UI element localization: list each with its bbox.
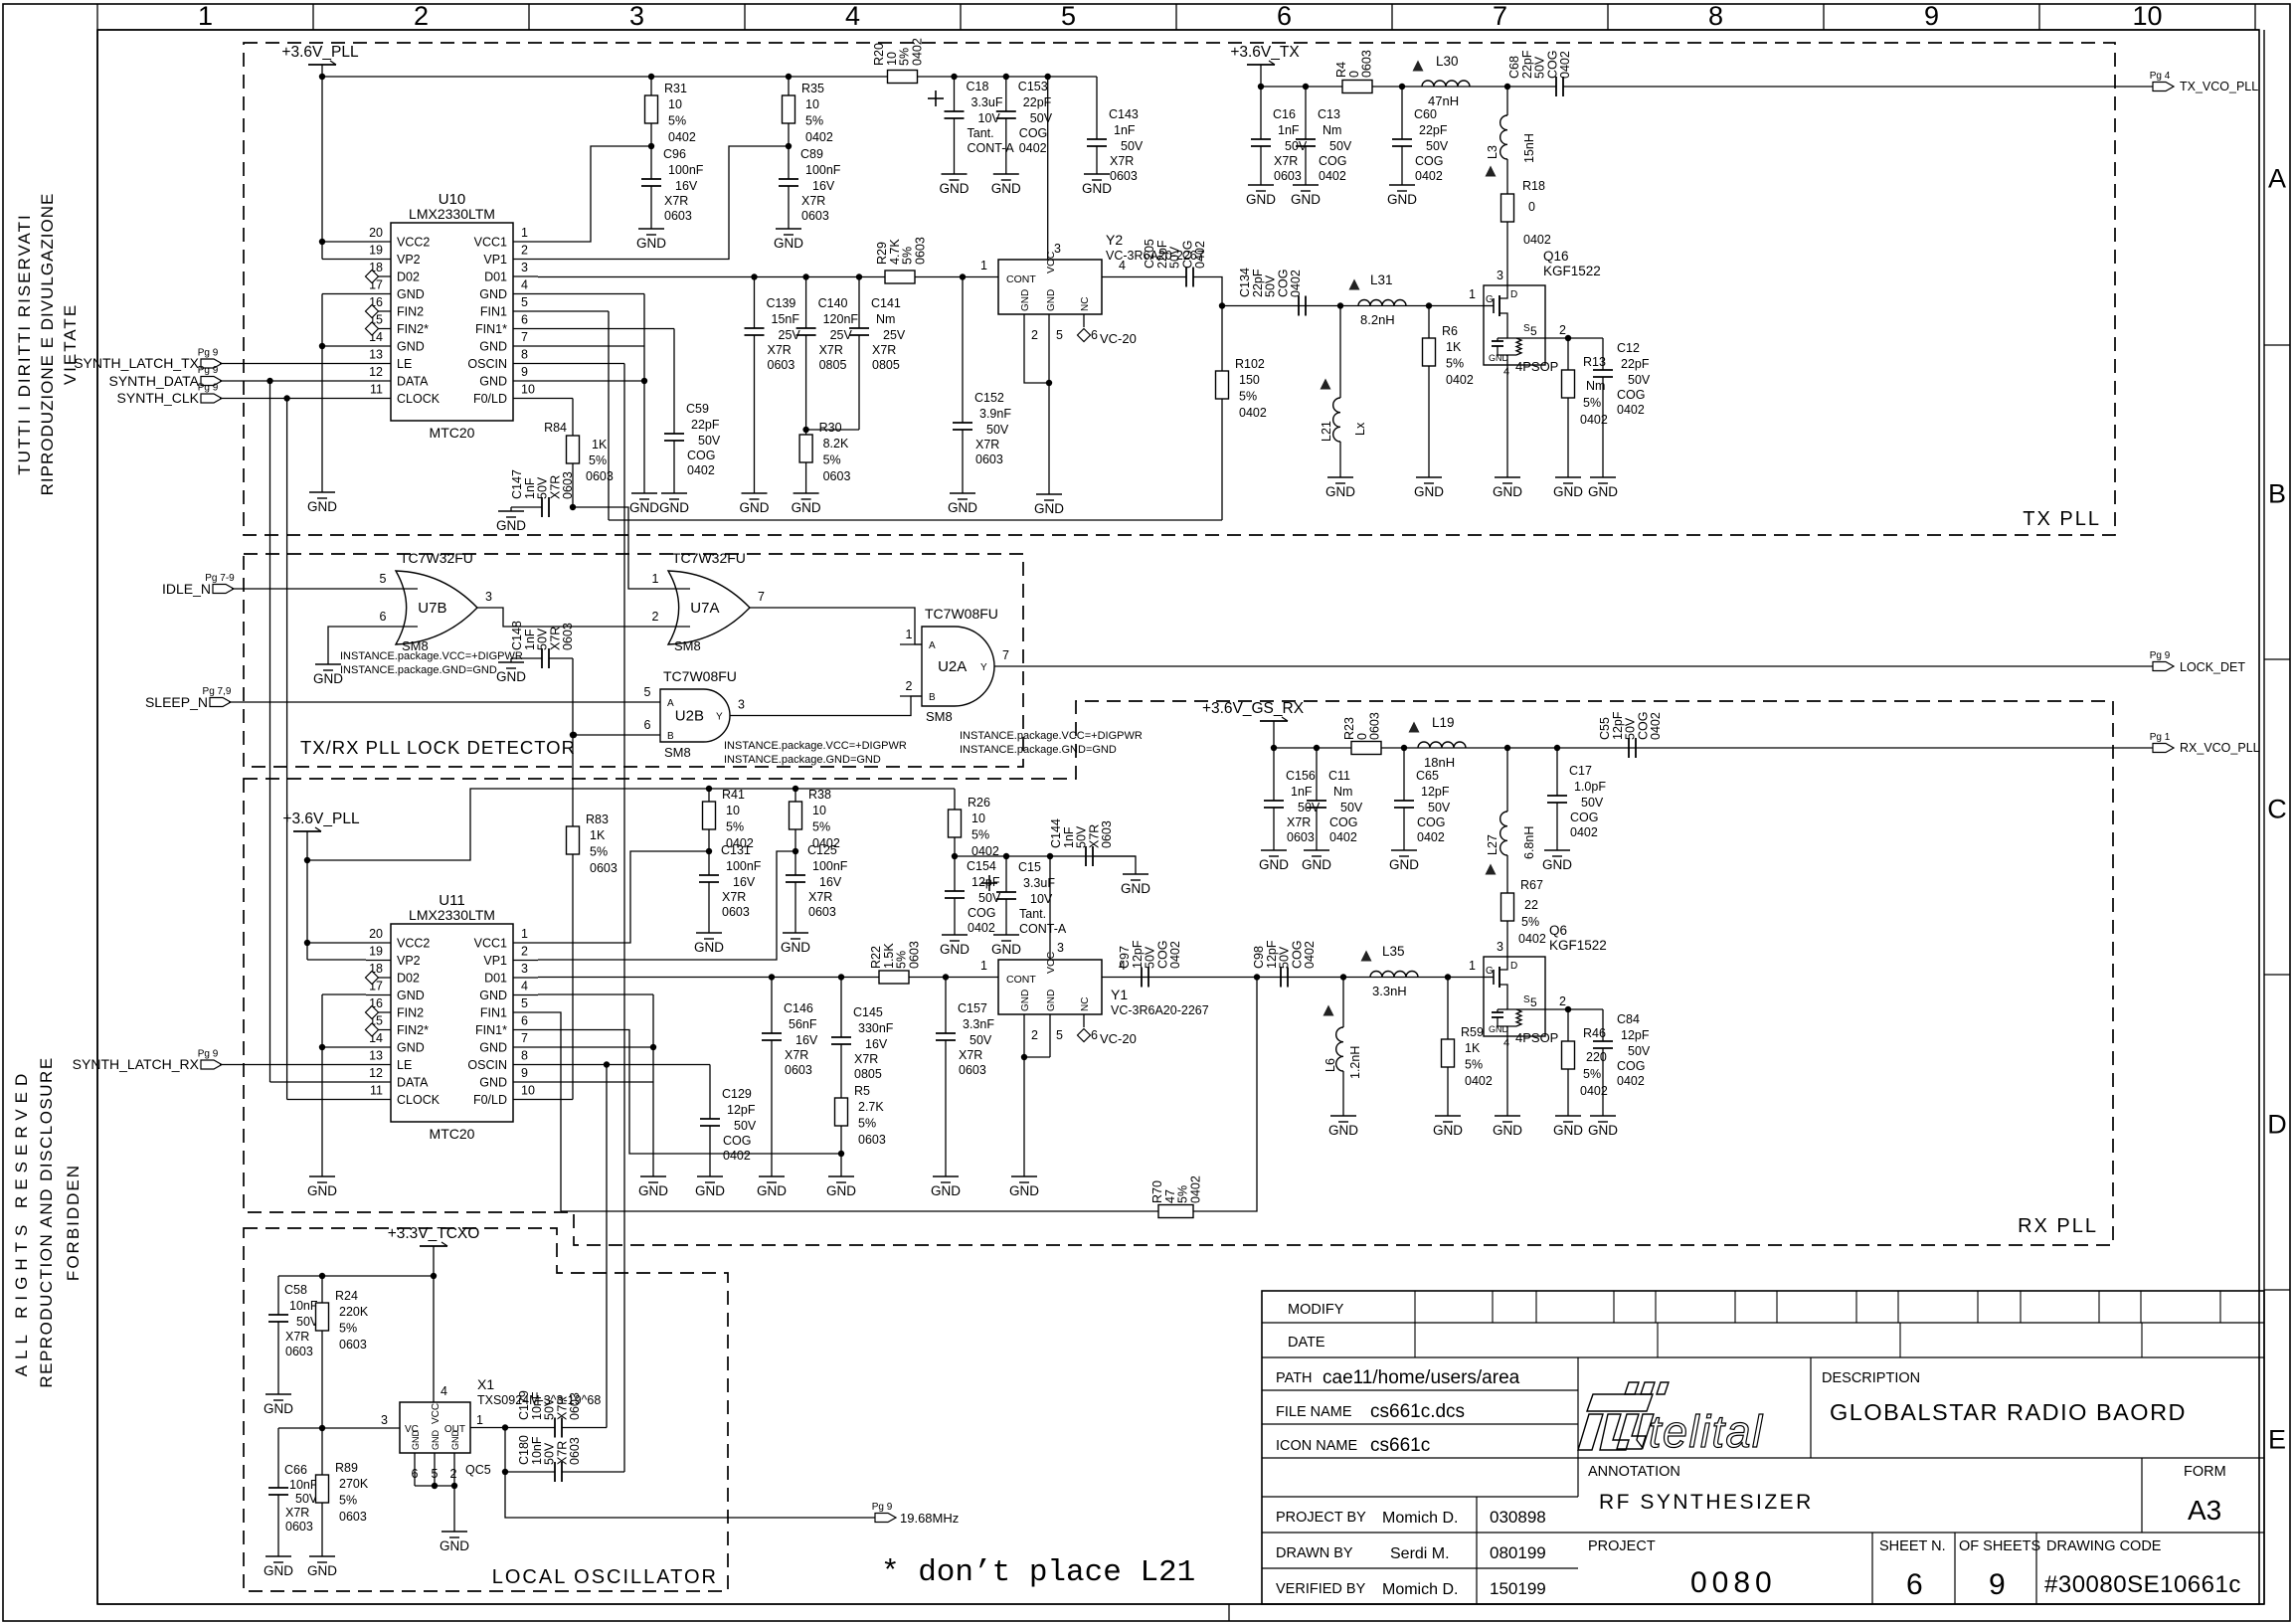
node OSCIN riser (604, 1061, 610, 1067)
svg-text:50V: 50V (698, 434, 721, 448)
svg-text:12pF: 12pF (1421, 785, 1450, 799)
wire X1 gnd pins (414, 1453, 416, 1486)
svg-text:GND: GND (1387, 192, 1417, 207)
svg-text:VCC2: VCC2 (397, 937, 430, 951)
wire C125-GND (794, 882, 796, 933)
wire U10 VCC1 jog (538, 146, 651, 242)
svg-text:0603: 0603 (1287, 830, 1315, 844)
ground L21 (1327, 476, 1353, 478)
svg-text:C59: C59 (686, 402, 709, 416)
ground Y1 (1011, 1175, 1037, 1177)
inductor L21 (not placed) (1339, 306, 1341, 399)
svg-text:50V: 50V (1628, 1044, 1651, 1058)
svg-text:C: C (2267, 795, 2287, 824)
no-connect diamond U11 pin18 (366, 972, 379, 985)
IC U11 pin 11 (CLOCK) (366, 1099, 391, 1101)
resistor R22 (879, 971, 909, 984)
svg-text:R83: R83 (586, 812, 609, 826)
svg-text:X7R: X7R (285, 1330, 309, 1344)
svg-text:GND: GND (1414, 484, 1444, 499)
wire U10 left gnd drop (321, 294, 323, 493)
inductor L30 (1422, 81, 1470, 87)
svg-text:50V: 50V (1581, 796, 1604, 810)
inductor L35 (1370, 972, 1418, 978)
svg-text:0: 0 (1528, 200, 1535, 214)
svg-text:5: 5 (1061, 1, 1076, 31)
svg-text:D: D (2267, 1110, 2287, 1140)
wire C144 right gnd (1093, 856, 1136, 874)
svg-text:GND: GND (479, 340, 507, 354)
wire TX feedback line (609, 519, 1222, 521)
svg-text:GND: GND (740, 500, 770, 515)
svg-text:GND: GND (1553, 1123, 1583, 1138)
svg-text:0603: 0603 (858, 1133, 886, 1147)
svg-text:GND: GND (940, 942, 970, 957)
IC U11 pin 6 (FIN1*) (513, 1029, 538, 1031)
capacitor C141 (858, 277, 860, 329)
capacitor C144 (1085, 846, 1087, 866)
svg-text:C140: C140 (818, 296, 848, 310)
svg-text:SYNTH_LATCH_TX: SYNTH_LATCH_TX (74, 355, 199, 371)
svg-text:SHEET N.: SHEET N. (1879, 1538, 1946, 1554)
ground R46 (1555, 1115, 1581, 1117)
svg-text:VERIFIED BY: VERIFIED BY (1276, 1581, 1366, 1597)
wire TX top rail (322, 76, 1097, 78)
svg-text:1: 1 (980, 959, 987, 973)
resistor R67 (1501, 893, 1514, 921)
svg-text:GND: GND (307, 1563, 337, 1578)
capacitor C156 (1273, 748, 1275, 801)
capacitor C152 (962, 277, 964, 424)
svg-text:FIN1*: FIN1* (475, 322, 507, 336)
capacitor C13 (1305, 87, 1307, 139)
svg-text:ALL RIGHTS RESERVED: ALL RIGHTS RESERVED (12, 1068, 31, 1377)
svg-text:LMX2330LTM: LMX2330LTM (409, 206, 495, 222)
svg-text:0402: 0402 (1188, 1175, 1202, 1203)
svg-text:TC7W08FU: TC7W08FU (663, 668, 737, 684)
svg-text:C129: C129 (722, 1087, 752, 1101)
wire U10 FIN1 jog (538, 310, 609, 312)
svg-text:0402: 0402 (1518, 932, 1546, 946)
svg-text:4: 4 (441, 1384, 447, 1398)
svg-text:5%: 5% (339, 1322, 357, 1336)
svg-text:10: 10 (812, 804, 826, 817)
node Y1 gnd join (1021, 1054, 1027, 1060)
svg-text:INSTANCE.package.VCC=+DIGPWR: INSTANCE.package.VCC=+DIGPWR (724, 740, 907, 752)
svg-text:4: 4 (1503, 366, 1509, 378)
svg-text:#30080SE10661c: #30080SE10661c (2044, 1571, 2241, 1598)
node C180 tap (502, 1469, 508, 1475)
svg-text:4PSOP: 4PSOP (1515, 359, 1558, 374)
svg-text:cs661c.dcs: cs661c.dcs (1370, 1401, 1465, 1422)
svg-text:0402: 0402 (1303, 941, 1317, 969)
wire TX control rail D01 (538, 276, 973, 278)
svg-text:7: 7 (1002, 648, 1009, 662)
svg-text:0603: 0603 (1100, 820, 1114, 848)
svg-text:L35: L35 (1382, 944, 1405, 959)
title block modify row (1262, 1322, 2264, 1324)
svg-text:X7R: X7R (959, 1048, 982, 1062)
no-connect diamond U11 pin16 (366, 1006, 379, 1019)
svg-text:0603: 0603 (285, 1345, 313, 1358)
ground C12 (1590, 476, 1616, 478)
svg-text:SM8: SM8 (674, 638, 701, 653)
svg-text:0080: 0080 (1690, 1566, 1777, 1599)
svg-text:GND: GND (479, 375, 507, 389)
svg-text:GND: GND (940, 181, 970, 196)
ground C146 (759, 1175, 785, 1177)
svg-text:cs661c: cs661c (1370, 1435, 1430, 1456)
wire C152-GND (962, 430, 964, 493)
svg-text:C145: C145 (853, 1005, 883, 1019)
svg-text:19.68MHz: 19.68MHz (900, 1511, 959, 1526)
resistor R4 (1342, 81, 1372, 93)
svg-text:FIN2*: FIN2* (397, 1023, 429, 1037)
svg-text:5%: 5% (589, 453, 607, 467)
svg-text:1: 1 (906, 628, 913, 641)
wire U2A B stub (900, 695, 922, 697)
IC U11 pin 19 (VP2) (366, 960, 391, 962)
svg-text:5%: 5% (812, 820, 830, 834)
svg-text:Pg 9: Pg 9 (2150, 650, 2171, 661)
svg-text:1: 1 (1469, 959, 1476, 973)
ground C16 (1248, 184, 1274, 186)
svg-text:8: 8 (521, 1049, 528, 1063)
wire TCXO stem (433, 1246, 435, 1276)
capacitor C68 (1555, 77, 1557, 96)
svg-text:GND: GND (1291, 192, 1321, 207)
IC U11 pin 18 (D02) (366, 977, 391, 979)
svg-text:5: 5 (1530, 995, 1537, 1009)
wire R46-GND (1567, 1069, 1569, 1116)
ground U7B (315, 663, 341, 665)
left margin column line (96, 30, 98, 1604)
IC U10 pin 1 (VCC1) (513, 241, 538, 243)
wire C65-GND (1403, 808, 1405, 850)
no-connect diamond U10 pin18 (366, 271, 379, 283)
ground R30 (794, 492, 819, 494)
svg-text:X7R: X7R (1287, 815, 1311, 829)
svg-text:5%: 5% (858, 1117, 876, 1131)
svg-text:C12: C12 (1617, 341, 1640, 355)
svg-text:10nF: 10nF (289, 1478, 318, 1492)
svg-text:R38: R38 (808, 788, 831, 802)
svg-text:0402: 0402 (805, 130, 833, 144)
ground C17 (1544, 849, 1570, 851)
node C16 (1258, 84, 1264, 90)
svg-text:GND: GND (479, 989, 507, 1002)
wire U7B pin6 gnd (328, 627, 418, 664)
wire Q16 pin4 gnd (1506, 365, 1508, 477)
svg-text:FIN1: FIN1 (480, 305, 507, 319)
wire R31-C96 (650, 123, 652, 146)
wire RX supply rail (1274, 747, 2158, 749)
svg-text:C131: C131 (721, 843, 751, 857)
svg-text:Y2: Y2 (1106, 232, 1123, 248)
svg-text:50V: 50V (970, 1033, 992, 1047)
svg-text:X7R: X7R (801, 194, 825, 208)
svg-text:DRAWN BY: DRAWN BY (1276, 1545, 1353, 1561)
svg-text:Y: Y (716, 712, 723, 723)
wire LOCK_DET line (994, 665, 2158, 667)
wire Y1 VCC riser (1049, 856, 1051, 960)
resistor R26 (954, 789, 956, 810)
oscillator X1 TXS0924M (400, 1402, 470, 1453)
resistor R23 (1351, 742, 1381, 755)
node R24 top (319, 1273, 325, 1279)
svg-text:3.3nF: 3.3nF (963, 1017, 994, 1031)
svg-text:0402: 0402 (668, 130, 696, 144)
svg-text:10: 10 (805, 97, 819, 111)
wire RX control rail (538, 977, 973, 979)
wire Q6 pin4 gnd (1506, 1036, 1508, 1116)
capacitor C154 (954, 856, 956, 891)
svg-text:15nF: 15nF (772, 312, 800, 326)
svg-text:4: 4 (1503, 1037, 1509, 1049)
wire R6-GND (1428, 366, 1430, 477)
svg-text:GND: GND (991, 181, 1021, 196)
resistor R46 (1567, 1009, 1569, 1041)
svg-text:GND: GND (1588, 1123, 1618, 1138)
svg-text:GND: GND (313, 671, 343, 686)
resistor R18 (1501, 194, 1514, 222)
wire C147 left (511, 506, 542, 508)
svg-text:18nH: 18nH (1424, 755, 1455, 770)
ground C144 (1123, 873, 1148, 875)
svg-text:LOCK_DET: LOCK_DET (2180, 660, 2245, 674)
wire Q16 gate stub (1458, 305, 1484, 307)
svg-text:R102: R102 (1235, 357, 1265, 371)
svg-text:A: A (929, 640, 936, 651)
svg-text:0603: 0603 (959, 1063, 986, 1077)
svg-text:20: 20 (369, 226, 383, 240)
capacitor C60 (1401, 87, 1403, 139)
svg-text:C15: C15 (1018, 860, 1041, 874)
svg-text:COG: COG (1329, 815, 1357, 829)
ground C153 (993, 173, 1019, 175)
svg-text:5%: 5% (1583, 396, 1601, 410)
ground C131 (696, 932, 722, 934)
node U11 GND14 (319, 1044, 325, 1050)
svg-text:1.0pF: 1.0pF (1574, 780, 1606, 794)
svg-text:0603: 0603 (975, 452, 1003, 466)
svg-text:50V: 50V (1428, 801, 1451, 814)
node R38 rail (793, 786, 798, 792)
svg-text:Pg 7-9: Pg 7-9 (205, 573, 235, 584)
node C98 left (1254, 974, 1260, 980)
svg-text:5%: 5% (339, 1494, 357, 1508)
svg-text:C96: C96 (663, 147, 686, 161)
svg-text:S: S (1523, 323, 1530, 334)
svg-text:C17: C17 (1569, 764, 1592, 778)
svg-text:0402: 0402 (1570, 825, 1598, 839)
wire Y1 GND pin2 (1024, 1014, 1050, 1057)
svg-text:Q6: Q6 (1549, 923, 1567, 938)
transistor Q16 KGF1522 body (1484, 285, 1545, 365)
svg-text:TUTTI I DIRITTI RISERVATI: TUTTI I DIRITTI RISERVATI (15, 213, 34, 474)
ground U10 right (631, 492, 657, 494)
svg-text:TX PLL: TX PLL (2023, 508, 2101, 530)
svg-text:Pg 9: Pg 9 (872, 1502, 893, 1513)
svg-text:GND: GND (1489, 1024, 1509, 1034)
svg-text:16V: 16V (812, 179, 835, 193)
capacitor C65 (1403, 748, 1405, 801)
wire +3.6V_GS_RX stem (1273, 721, 1275, 748)
svg-text:IDLE_N: IDLE_N (162, 581, 211, 597)
IC U10 pin 14 (GND) (366, 345, 391, 347)
svg-text:COG: COG (1617, 388, 1645, 402)
svg-text:5%: 5% (805, 114, 823, 128)
IC U11 pin 9 (GND) (513, 1081, 538, 1083)
wire TX vco net (1222, 305, 1458, 307)
node Y2 gnd join (1046, 380, 1052, 386)
wire C89-GND (788, 186, 790, 229)
svg-text:C146: C146 (784, 1001, 813, 1015)
svg-text:7: 7 (1493, 1, 1507, 31)
wire U11 GND pin7 (538, 1046, 653, 1048)
svg-text:REPRODUCTION AND DISCLOSURE: REPRODUCTION AND DISCLOSURE (37, 1056, 56, 1387)
wire C148 left gnd (511, 657, 542, 659)
capacitor C145 (840, 978, 842, 1038)
node C156 (1271, 745, 1277, 751)
wire SLEEP_N to U2B (229, 701, 660, 703)
svg-text:U2B: U2B (675, 708, 704, 725)
resistor R83 (567, 826, 580, 854)
svg-text:KGF1522: KGF1522 (1543, 264, 1601, 278)
svg-text:150199: 150199 (1490, 1579, 1546, 1598)
svg-text:0402: 0402 (1289, 270, 1303, 297)
svg-text:VC-20: VC-20 (1100, 331, 1137, 346)
IC U11 pin 7 (GND) (513, 1046, 538, 1048)
svg-text:GND: GND (931, 1183, 961, 1198)
wire TX_VCO_PLL (1563, 86, 2158, 88)
svg-text:16V: 16V (865, 1037, 888, 1051)
wire U11 F0/LD stub (538, 1099, 573, 1101)
wire U10 OSCIN jog (538, 363, 624, 365)
svg-text:X7R: X7R (854, 1052, 878, 1066)
svg-text:3: 3 (738, 698, 745, 712)
svg-text:3: 3 (1057, 941, 1064, 955)
ground U11 left (309, 1175, 335, 1177)
bottom strip (97, 1603, 2264, 1605)
LOCAL OSCILLATOR dashed box (244, 1228, 728, 1591)
svg-text:VCC: VCC (431, 1403, 441, 1424)
svg-text:GND: GND (1542, 857, 1572, 872)
capacitor C12 (1602, 338, 1604, 370)
wire U11 left gnd drop (321, 994, 323, 1176)
svg-text:NC: NC (1080, 997, 1091, 1011)
svg-text:Pg 9: Pg 9 (198, 383, 219, 394)
wire R38-C125 (794, 829, 796, 851)
wire SYNTH_CLK (220, 398, 366, 400)
svg-text:6: 6 (1091, 328, 1098, 342)
node R59 tap (1445, 974, 1451, 980)
svg-text:1: 1 (521, 927, 528, 941)
IC U10 pin 11 (CLOCK) (366, 398, 391, 400)
ground C152 (950, 492, 975, 494)
svg-text:6: 6 (380, 610, 387, 624)
IC U10 pin 4 (GND) (513, 293, 538, 295)
svg-text:COG: COG (1319, 154, 1346, 168)
capacitor C11 (1316, 748, 1318, 801)
svg-text:A: A (667, 698, 674, 709)
wire U10 GND pin4 (538, 293, 644, 295)
svg-text:100nF: 100nF (726, 859, 762, 873)
svg-text:GND: GND (440, 1538, 469, 1553)
node R35 top (786, 74, 792, 80)
resistor R30 (805, 430, 807, 435)
svg-text:0402: 0402 (1523, 233, 1551, 247)
svg-text:3: 3 (1497, 940, 1503, 954)
svg-text:GND: GND (307, 1183, 337, 1198)
node C18 top (951, 74, 957, 80)
svg-text:G: G (1486, 966, 1494, 977)
node C65 (1401, 745, 1407, 751)
node R5 fin tap (838, 1151, 844, 1157)
svg-text:COG: COG (1415, 154, 1443, 168)
capacitor C97 (1141, 968, 1143, 988)
capacitor C89 (788, 146, 790, 179)
svg-text:TX_VCO_PLL: TX_VCO_PLL (2180, 80, 2258, 93)
svg-text:0603: 0603 (339, 1338, 367, 1352)
right ruler strip (2263, 30, 2265, 1604)
wire RX lock riser lower (572, 854, 574, 1100)
svg-text:B: B (929, 692, 936, 703)
IC U10 pin 8 (OSCIN) (513, 363, 538, 365)
node C145 (838, 974, 844, 980)
svg-text:0603: 0603 (808, 905, 836, 919)
wire R5 out (840, 1126, 842, 1176)
svg-text:10: 10 (971, 812, 985, 825)
svg-text:X7R: X7R (872, 343, 896, 357)
svg-text:50V: 50V (1628, 373, 1651, 387)
node U2B B (571, 732, 577, 738)
svg-text:X7R: X7R (1274, 154, 1298, 168)
svg-text:X7R: X7R (722, 890, 746, 904)
svg-text:GND: GND (1121, 881, 1150, 896)
svg-text:OF SHEETS: OF SHEETS (1959, 1538, 2040, 1554)
svg-text:FIN1: FIN1 (480, 1006, 507, 1020)
wire U11 VP2 link (307, 959, 366, 961)
svg-text:100nF: 100nF (668, 163, 704, 177)
svg-text:DATA: DATA (397, 375, 429, 389)
svg-text:GND: GND (479, 1076, 507, 1090)
wire R89-GND (321, 1503, 323, 1556)
svg-text:0603: 0603 (1110, 169, 1138, 183)
svg-text:RX PLL: RX PLL (2018, 1215, 2098, 1237)
svg-text:Serdi M.: Serdi M. (1390, 1545, 1450, 1562)
wire U11 FIN1 jog (538, 1012, 561, 1211)
svg-text:OSCIN: OSCIN (467, 1058, 507, 1072)
svg-text:0805: 0805 (819, 358, 847, 372)
svg-text:TC7W08FU: TC7W08FU (925, 606, 998, 622)
svg-text:VIETATE: VIETATE (61, 303, 80, 385)
svg-text:7: 7 (521, 1031, 528, 1045)
ground R89 (309, 1555, 335, 1557)
wire Y1 gnd drop (1023, 1057, 1025, 1176)
wire C15-GND (1005, 899, 1007, 935)
node TX vco net (1219, 302, 1225, 308)
wire RX lock riser upper (572, 658, 574, 826)
svg-text:FILE NAME: FILE NAME (1276, 1404, 1352, 1420)
svg-text:1nF: 1nF (1291, 785, 1313, 799)
svg-text:F0/LD: F0/LD (473, 392, 507, 406)
svg-text:20: 20 (369, 927, 383, 941)
svg-text:OSCIN: OSCIN (467, 357, 507, 371)
ground Q6 (1495, 1115, 1520, 1117)
svg-text:0402: 0402 (1193, 241, 1207, 269)
svg-text:VCC: VCC (1045, 951, 1057, 974)
